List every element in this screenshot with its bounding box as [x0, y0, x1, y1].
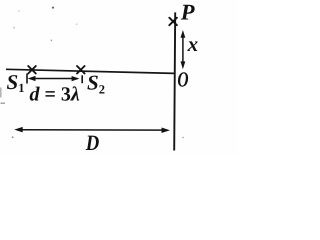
svg-text:x: x — [187, 32, 199, 56]
svg-text:S2: S2 — [87, 71, 105, 97]
node P: cross mark for point P on screen — [169, 18, 177, 26]
scan dash bottom left — [1, 103, 6, 104]
svg-text:P: P — [180, 0, 195, 25]
node S2: cross mark for source S2 — [77, 66, 85, 74]
dimension tick at S1 — [26, 74, 28, 84]
svg-text:D: D — [85, 130, 99, 155]
dimension arrow d between S1 and S2 — [28, 76, 80, 81]
scan smudge left edge — [0, 88, 2, 98]
svg-text:O: O — [177, 67, 188, 91]
dimension tick at S2 — [81, 75, 83, 83]
wire: horizontal axis line from sources to point O — [6, 69, 174, 73]
svg-text:S1: S1 — [7, 70, 25, 95]
svg-text:d = 3λ: d = 3λ — [30, 84, 80, 106]
node S1: cross mark for source S1 — [28, 66, 36, 74]
scan noise specks (faint) — [12, 7, 184, 139]
dimension arrow D from left edge to screen — [14, 127, 170, 133]
wire: vertical screen line through P and O — [174, 12, 175, 150]
dimension arrow x from P to O — [181, 30, 186, 69]
